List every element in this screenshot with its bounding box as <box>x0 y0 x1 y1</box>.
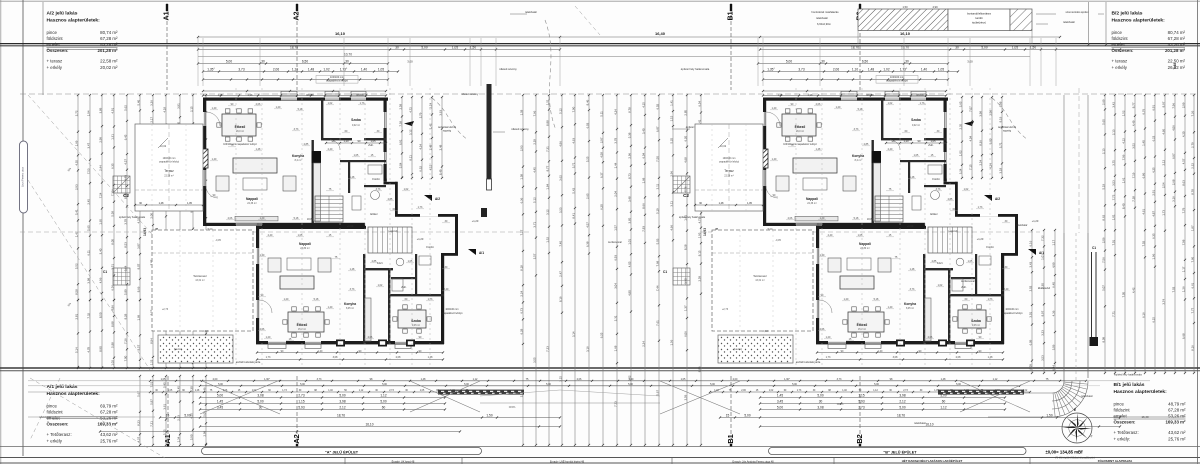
svg-text:1,40: 1,40 <box>212 107 217 110</box>
svg-text:±0,00: ±0,00 <box>257 222 264 226</box>
svg-text:2,85: 2,85 <box>683 110 687 116</box>
svg-text:1,51: 1,51 <box>545 99 549 105</box>
svg-text:1,05: 1,05 <box>452 46 458 50</box>
svg-text:3,52: 3,52 <box>1131 143 1135 149</box>
svg-text:7,21: 7,21 <box>149 381 153 387</box>
svg-text:1,40: 1,40 <box>361 68 367 72</box>
svg-text:1,12: 1,12 <box>359 390 364 392</box>
svg-text:1,05: 1,05 <box>968 260 973 263</box>
svg-text:"B" JELŰ ÉPÜLET: "B" JELŰ ÉPÜLET <box>883 449 917 454</box>
svg-text:1,30°: 1,30° <box>264 378 270 381</box>
svg-text:telekhatár: telekhatár <box>1063 20 1075 24</box>
svg-text:7,72: 7,72 <box>1111 194 1115 200</box>
svg-text:5,00: 5,00 <box>768 228 773 231</box>
svg-text:1,73: 1,73 <box>988 298 993 301</box>
svg-text:+ erkély: + erkély <box>1112 65 1128 70</box>
svg-text:1,87: 1,87 <box>1190 225 1194 231</box>
svg-text:5,12: 5,12 <box>558 108 562 114</box>
svg-text:3,62: 3,62 <box>558 175 562 181</box>
svg-text:+2,73: +2,73 <box>722 308 729 311</box>
svg-text:1,45: 1,45 <box>777 394 783 398</box>
svg-text:6,93: 6,93 <box>613 255 617 261</box>
svg-text:Közl.: Közl. <box>937 261 943 265</box>
svg-text:1,20: 1,20 <box>266 336 271 339</box>
svg-text:2,02: 2,02 <box>1028 285 1032 291</box>
svg-text:1,22: 1,22 <box>149 359 153 365</box>
svg-text:1,02: 1,02 <box>328 102 333 105</box>
svg-text:kerítésvonal: kerítésvonal <box>961 280 975 283</box>
svg-text:7,32: 7,32 <box>86 313 90 319</box>
svg-text:1,02: 1,02 <box>378 284 383 287</box>
svg-text:kerülő: kerülő <box>975 16 983 20</box>
svg-text:4,18: 4,18 <box>162 107 166 113</box>
svg-text:8,62: 8,62 <box>1101 215 1105 221</box>
svg-text:7,38: 7,38 <box>398 121 402 127</box>
svg-text:3,98: 3,98 <box>899 394 905 398</box>
svg-text:Fürdő: Fürdő <box>932 177 940 181</box>
svg-text:5,12: 5,12 <box>532 197 536 203</box>
svg-text:Konyha: Konyha <box>292 154 304 158</box>
svg-text:2,06: 2,06 <box>273 68 279 72</box>
svg-text:2,85: 2,85 <box>932 260 937 263</box>
svg-text:4,57: 4,57 <box>1181 158 1185 164</box>
svg-text:3,85: 3,85 <box>627 217 631 223</box>
svg-text:6,48: 6,48 <box>1173 63 1177 69</box>
svg-text:2,06: 2,06 <box>928 336 933 339</box>
svg-text:Összesen:: Összesen: <box>1114 420 1137 425</box>
svg-text:8,36: 8,36 <box>978 140 982 146</box>
svg-text:ültetett sövény: ültetett sövény <box>499 67 517 71</box>
svg-text:2,85: 2,85 <box>864 143 869 146</box>
svg-text:67,28 m²: 67,28 m² <box>100 410 118 415</box>
svg-text:3,73: 3,73 <box>294 128 299 131</box>
svg-text:43,62 m²: 43,62 m² <box>100 432 118 437</box>
svg-text:5,14: 5,14 <box>74 347 78 353</box>
svg-text:5,89: 5,89 <box>123 289 127 295</box>
svg-text:8,09: 8,09 <box>1101 336 1105 342</box>
svg-text:1,35°: 1,35° <box>767 68 775 72</box>
svg-text:8,07: 8,07 <box>136 263 140 269</box>
svg-text:A2: A2 <box>292 434 301 444</box>
svg-text:3,16: 3,16 <box>1171 196 1175 202</box>
svg-text:A/1: A/1 <box>479 251 484 255</box>
svg-text:6,45: 6,45 <box>123 134 127 140</box>
svg-text:3,78: 3,78 <box>123 219 127 225</box>
svg-text:+ Tetőterasz:: + Tetőterasz: <box>47 432 72 437</box>
svg-text:2,00: 2,00 <box>733 378 738 381</box>
svg-text:1,48: 1,48 <box>350 176 355 179</box>
svg-text:8,40: 8,40 <box>1121 203 1125 209</box>
svg-text:1,48: 1,48 <box>428 144 432 150</box>
svg-text:100/100 mm csapadékvíz lefolyó: 100/100 mm csapadékvíz lefolyó <box>223 144 257 146</box>
svg-text:6,27: 6,27 <box>599 172 603 178</box>
svg-text:2,59: 2,59 <box>683 394 687 400</box>
svg-text:4,86: 4,86 <box>110 305 114 311</box>
svg-text:telekhatár: telekhatár <box>1081 394 1093 398</box>
svg-text:16,10: 16,10 <box>366 423 374 427</box>
svg-text:1,58: 1,58 <box>519 109 523 115</box>
svg-text:5,65: 5,65 <box>86 225 90 231</box>
svg-text:2,68: 2,68 <box>1171 179 1175 185</box>
svg-text:aszfalt burkolatú járda: aszfalt burkolatú járda <box>796 361 821 364</box>
svg-text:7,24: 7,24 <box>98 192 102 198</box>
svg-text:1,12: 1,12 <box>473 378 478 381</box>
svg-text:4,61: 4,61 <box>1141 209 1145 215</box>
svg-text:5,88: 5,88 <box>110 342 114 348</box>
svg-text:5,67: 5,67 <box>655 390 659 396</box>
svg-text:C1: C1 <box>103 270 107 274</box>
svg-text:4,78: 4,78 <box>86 347 90 353</box>
svg-text:1,48: 1,48 <box>868 68 874 72</box>
svg-text:3,71: 3,71 <box>571 162 575 168</box>
svg-text:földszint: földszint <box>47 410 64 415</box>
svg-text:A/1: A/1 <box>1039 251 1044 255</box>
svg-text:22,36 m²: 22,36 m² <box>247 202 257 205</box>
svg-text:+ terasz: + terasz <box>1112 59 1128 64</box>
svg-text:6,61: 6,61 <box>1190 282 1194 288</box>
svg-text:1,12: 1,12 <box>940 406 946 410</box>
svg-text:csapadékvíz lefolyó: csapadékvíz lefolyó <box>886 80 908 83</box>
svg-text:8,97: 8,97 <box>1161 101 1165 107</box>
svg-text:3,78: 3,78 <box>613 138 617 144</box>
svg-text:53,26 m²: 53,26 m² <box>100 42 118 47</box>
svg-text:1,40: 1,40 <box>212 158 217 161</box>
svg-text:169,33 m²: 169,33 m² <box>1165 420 1186 425</box>
svg-text:HÉT DARAB NÉGYLAKÁSOS LAKÓÉPÜL: HÉT DARAB NÉGYLAKÁSOS LAKÓÉPÜLET <box>902 458 963 463</box>
svg-text:1,48: 1,48 <box>428 356 433 359</box>
svg-text:3,91: 3,91 <box>176 103 180 109</box>
svg-text:1,68: 1,68 <box>641 177 645 183</box>
svg-text:A/1 jelű lakás: A/1 jelű lakás <box>47 384 78 390</box>
svg-text:60: 60 <box>382 406 386 410</box>
svg-text:B1: B1 <box>726 434 735 444</box>
svg-text:5,00: 5,00 <box>218 383 223 386</box>
svg-text:csapadékvíz lefolyó: csapadékvíz lefolyó <box>1002 312 1024 315</box>
svg-text:C1: C1 <box>663 270 667 274</box>
svg-text:7,31: 7,31 <box>545 146 549 152</box>
svg-text:1,40: 1,40 <box>1141 140 1145 146</box>
svg-text:15: 15 <box>726 414 730 418</box>
svg-text:6,09: 6,09 <box>1028 339 1032 345</box>
svg-text:Terasz: Terasz <box>724 169 734 173</box>
svg-text:5,00: 5,00 <box>464 383 469 386</box>
svg-text:1,40: 1,40 <box>328 306 333 309</box>
svg-text:6,73: 6,73 <box>123 175 127 181</box>
svg-text:18,88: 18,88 <box>307 218 314 221</box>
svg-text:18,76: 18,76 <box>337 414 345 418</box>
svg-text:5,00: 5,00 <box>226 60 232 64</box>
svg-text:Hasznos alapterületek:: Hasznos alapterületek: <box>1114 389 1168 395</box>
svg-text:8,88: 8,88 <box>110 321 114 327</box>
svg-text:2,00: 2,00 <box>213 378 218 381</box>
svg-text:1,02: 1,02 <box>883 68 889 72</box>
svg-text:1,50: 1,50 <box>470 46 476 50</box>
svg-text:5,00: 5,00 <box>792 383 797 386</box>
svg-text:80,74 m²: 80,74 m² <box>100 30 118 35</box>
svg-text:1,58: 1,58 <box>519 174 523 180</box>
svg-text:Hasznos alapterületek:: Hasznos alapterületek: <box>1112 18 1166 24</box>
svg-text:6,54: 6,54 <box>697 101 701 107</box>
svg-text:1,26: 1,26 <box>1181 286 1185 292</box>
svg-text:6,03: 6,03 <box>585 122 589 128</box>
svg-text:25,76 m²: 25,76 m² <box>1168 437 1186 442</box>
svg-text:100/100 mm csapadékvíz lefolyó: 100/100 mm csapadékvíz lefolyó <box>783 144 817 146</box>
svg-text:5,00: 5,00 <box>786 60 792 64</box>
svg-text:1,65: 1,65 <box>98 219 102 225</box>
svg-text:1,32: 1,32 <box>545 237 549 243</box>
svg-text:1,05: 1,05 <box>747 202 752 205</box>
svg-text:2,40: 2,40 <box>268 234 273 237</box>
svg-text:5,00: 5,00 <box>744 414 750 418</box>
svg-text:2,40: 2,40 <box>888 148 893 151</box>
svg-text:2,48: 2,48 <box>438 144 442 150</box>
svg-text:3,65: 3,65 <box>958 101 962 107</box>
svg-text:2,40: 2,40 <box>1004 288 1009 291</box>
svg-text:7,26: 7,26 <box>1190 110 1194 116</box>
svg-text:53,26 m²: 53,26 m² <box>100 416 118 421</box>
svg-text:4,25: 4,25 <box>1151 167 1155 173</box>
svg-text:2,44: 2,44 <box>98 165 102 171</box>
svg-text:1,73: 1,73 <box>978 206 983 209</box>
svg-text:2,06: 2,06 <box>741 390 746 392</box>
svg-text:1,48: 1,48 <box>910 176 915 179</box>
svg-text:épület(rész): épület(rész) <box>972 21 986 25</box>
svg-text:1,05: 1,05 <box>420 390 425 392</box>
svg-text:9,02 m²: 9,02 m² <box>912 124 920 127</box>
svg-text:1,05: 1,05 <box>1012 46 1018 50</box>
svg-text:1,37: 1,37 <box>683 305 687 311</box>
svg-text:+1,20: +1,20 <box>977 237 984 241</box>
svg-text:1,40: 1,40 <box>842 390 847 392</box>
svg-text:7,66: 7,66 <box>532 110 536 116</box>
svg-text:4,15: 4,15 <box>428 164 432 170</box>
svg-text:4,80: 4,80 <box>627 290 631 296</box>
svg-text:5,00: 5,00 <box>710 383 715 386</box>
svg-text:2,65: 2,65 <box>585 193 589 199</box>
svg-text:1,48: 1,48 <box>421 378 426 381</box>
svg-text:Terasz: Terasz <box>164 169 174 173</box>
svg-text:30: 30 <box>821 60 825 64</box>
svg-text:9,45 m²: 9,45 m² <box>412 324 420 327</box>
svg-text:7,02: 7,02 <box>1171 286 1175 292</box>
svg-text:+1,20: +1,20 <box>1032 219 1039 223</box>
svg-text:8,78: 8,78 <box>1190 189 1194 195</box>
svg-text:10,70: 10,70 <box>901 45 909 49</box>
svg-text:2,97: 2,97 <box>599 137 603 143</box>
svg-text:6,60x2,90m: 6,60x2,90m <box>817 22 832 26</box>
svg-text:+0,00: +0,00 <box>347 224 354 228</box>
svg-text:1,02: 1,02 <box>938 284 943 287</box>
svg-text:2,24: 2,24 <box>641 341 645 347</box>
svg-text:Nappali: Nappali <box>299 242 311 246</box>
svg-text:+ erkély: + erkély <box>47 439 63 444</box>
svg-text:6,35: 6,35 <box>110 163 114 169</box>
svg-text:2,98: 2,98 <box>988 110 992 116</box>
svg-text:5,00: 5,00 <box>817 394 823 398</box>
svg-text:1,48: 1,48 <box>941 378 946 381</box>
svg-text:8,57: 8,57 <box>136 344 140 350</box>
svg-text:Konyha: Konyha <box>904 302 916 306</box>
svg-text:1,50: 1,50 <box>1030 46 1036 50</box>
svg-text:2,12: 2,12 <box>339 406 345 410</box>
svg-text:1,48: 1,48 <box>308 68 314 72</box>
svg-text:9,02 m²: 9,02 m² <box>352 124 360 127</box>
svg-text:100/100 mm: 100/100 mm <box>723 158 736 160</box>
svg-text:5,90: 5,90 <box>189 434 193 440</box>
svg-text:telekhatár: telekhatár <box>816 16 828 20</box>
svg-text:5,58: 5,58 <box>110 211 114 217</box>
svg-text:5,41: 5,41 <box>74 209 78 215</box>
svg-text:1,57: 1,57 <box>613 225 617 231</box>
svg-text:8,94: 8,94 <box>149 338 153 344</box>
svg-text:emelet: emelet <box>47 42 61 47</box>
svg-text:1,50: 1,50 <box>1046 414 1052 418</box>
svg-text:8,73: 8,73 <box>627 173 631 179</box>
svg-text:43,62 m²: 43,62 m² <box>1168 430 1186 435</box>
svg-text:8,77: 8,77 <box>1131 102 1135 108</box>
svg-text:5,18: 5,18 <box>294 217 299 220</box>
svg-text:(kavics): (kavics) <box>174 348 182 351</box>
svg-text:1,48: 1,48 <box>350 268 355 271</box>
svg-text:5,38: 5,38 <box>627 132 631 138</box>
svg-text:2,06: 2,06 <box>833 68 839 72</box>
svg-text:csapadékvíz lefolyó: csapadékvíz lefolyó <box>442 312 464 315</box>
svg-text:1,73: 1,73 <box>266 356 271 359</box>
svg-text:3,23: 3,23 <box>558 207 562 213</box>
svg-text:1,30°: 1,30° <box>784 378 790 381</box>
svg-text:6,22: 6,22 <box>1151 135 1155 141</box>
svg-text:5,00: 5,00 <box>874 383 879 386</box>
svg-text:1,02: 1,02 <box>958 150 962 156</box>
svg-text:5,93: 5,93 <box>298 406 304 410</box>
svg-text:aszfalt burkolatú járda: aszfalt burkolatú járda <box>236 361 261 364</box>
svg-text:3,53: 3,53 <box>1040 355 1044 361</box>
svg-text:1,40: 1,40 <box>820 254 825 257</box>
svg-text:FÖLDSZINT ALAPRAJZA: FÖLDSZINT ALAPRAJZA <box>1098 459 1133 463</box>
svg-text:3,73: 3,73 <box>854 128 859 131</box>
svg-text:1,05: 1,05 <box>187 202 192 205</box>
svg-text:1,84: 1,84 <box>545 184 549 190</box>
svg-text:22,58 m²: 22,58 m² <box>724 175 734 178</box>
svg-text:2,93: 2,93 <box>519 145 523 151</box>
svg-text:1,40: 1,40 <box>888 306 893 309</box>
svg-text:2,06: 2,06 <box>577 378 582 381</box>
svg-text:3,01: 3,01 <box>1028 312 1032 318</box>
svg-text:1,68: 1,68 <box>613 345 617 351</box>
svg-text:2,58: 2,58 <box>398 104 402 110</box>
svg-text:8,05 m²: 8,05 m² <box>906 307 914 310</box>
svg-text:3,53: 3,53 <box>1111 180 1115 186</box>
svg-text:2,15: 2,15 <box>189 106 193 112</box>
svg-text:3,73: 3,73 <box>350 288 355 291</box>
svg-text:1,02: 1,02 <box>888 102 893 105</box>
svg-text:5,18: 5,18 <box>314 298 319 301</box>
svg-text:6,50: 6,50 <box>302 60 308 64</box>
svg-text:22,58 m²: 22,58 m² <box>164 175 174 178</box>
svg-text:2,24: 2,24 <box>519 291 523 297</box>
svg-text:6,25: 6,25 <box>599 332 603 338</box>
svg-text:1,73: 1,73 <box>1161 210 1165 216</box>
svg-text:+1,20: +1,20 <box>417 237 424 241</box>
svg-text:100/100 mm: 100/100 mm <box>1005 308 1018 311</box>
svg-text:1,20: 1,20 <box>260 217 265 220</box>
svg-text:1,05: 1,05 <box>938 68 944 72</box>
svg-text:2,11: 2,11 <box>655 184 659 190</box>
svg-text:2,08: 2,08 <box>396 356 401 359</box>
svg-text:egység: egység <box>443 130 452 133</box>
svg-text:3,47: 3,47 <box>86 142 90 148</box>
svg-text:1,73: 1,73 <box>826 356 831 359</box>
svg-text:C2: C2 <box>683 193 689 198</box>
svg-text:5,00: 5,00 <box>380 400 386 404</box>
svg-text:25,76 m²: 25,76 m² <box>100 439 118 444</box>
svg-text:2,99: 2,99 <box>98 137 102 143</box>
svg-text:5,87: 5,87 <box>149 399 153 405</box>
svg-text:18,76: 18,76 <box>851 46 859 50</box>
svg-text:2,13: 2,13 <box>1101 148 1105 154</box>
svg-text:1,44: 1,44 <box>613 162 617 168</box>
svg-text:1,35°: 1,35° <box>207 68 215 72</box>
svg-text:3,89: 3,89 <box>98 107 102 113</box>
svg-text:4,63: 4,63 <box>571 138 575 144</box>
svg-text:1,05: 1,05 <box>914 154 919 157</box>
svg-text:1,02: 1,02 <box>769 390 774 392</box>
svg-text:5,00: 5,00 <box>546 383 551 386</box>
svg-text:201,28 m²: 201,28 m² <box>97 48 118 53</box>
svg-text:3,55: 3,55 <box>532 357 536 363</box>
svg-text:2,00: 2,00 <box>149 213 153 219</box>
svg-text:1,05: 1,05 <box>378 68 384 72</box>
svg-text:80,74 m²: 80,74 m² <box>1168 30 1186 35</box>
svg-text:7,23: 7,23 <box>545 346 549 352</box>
svg-text:2,06: 2,06 <box>820 328 825 331</box>
svg-text:-0,05: -0,05 <box>215 239 221 242</box>
svg-text:2,17: 2,17 <box>149 117 153 123</box>
svg-text:1,20: 1,20 <box>276 106 281 109</box>
svg-text:1,20: 1,20 <box>903 139 909 143</box>
svg-text:1,40: 1,40 <box>772 107 777 110</box>
svg-text:Konyha: Konyha <box>344 302 356 306</box>
svg-text:7,32: 7,32 <box>1040 235 1044 241</box>
svg-text:3,63: 3,63 <box>438 110 442 116</box>
svg-text:földszint: földszint <box>1114 408 1131 413</box>
svg-text:telekhatár: telekhatár <box>525 10 537 14</box>
svg-text:5,03: 5,03 <box>655 238 659 244</box>
svg-text:+ erkély: + erkély <box>47 65 63 70</box>
svg-text:6,20: 6,20 <box>599 204 603 210</box>
svg-text:földszint: földszint <box>1112 36 1129 41</box>
svg-text:2,85: 2,85 <box>388 198 393 201</box>
svg-text:3,04: 3,04 <box>613 283 617 289</box>
svg-text:Nappali: Nappali <box>806 197 818 201</box>
svg-text:29,0 m²: 29,0 m² <box>796 130 804 133</box>
svg-text:6,36: 6,36 <box>519 197 523 203</box>
svg-text:3,43: 3,43 <box>1028 262 1032 268</box>
svg-text:C1: C1 <box>1092 246 1096 250</box>
svg-text:B1: B1 <box>728 11 735 20</box>
svg-text:3,73: 3,73 <box>238 68 244 72</box>
svg-text:5,45: 5,45 <box>162 382 166 388</box>
svg-text:4,06: 4,06 <box>1171 125 1175 131</box>
svg-text:8,16: 8,16 <box>1190 345 1194 351</box>
svg-text:8,97: 8,97 <box>1040 310 1044 316</box>
svg-text:3,61: 3,61 <box>162 404 166 410</box>
svg-text:5,00: 5,00 <box>382 383 387 386</box>
svg-text:"A" JELŰ ÉPÜLET: "A" JELŰ ÉPÜLET <box>325 449 359 454</box>
svg-text:8,90: 8,90 <box>98 346 102 352</box>
svg-text:3,98: 3,98 <box>86 278 90 284</box>
svg-text:1,20: 1,20 <box>284 298 289 301</box>
